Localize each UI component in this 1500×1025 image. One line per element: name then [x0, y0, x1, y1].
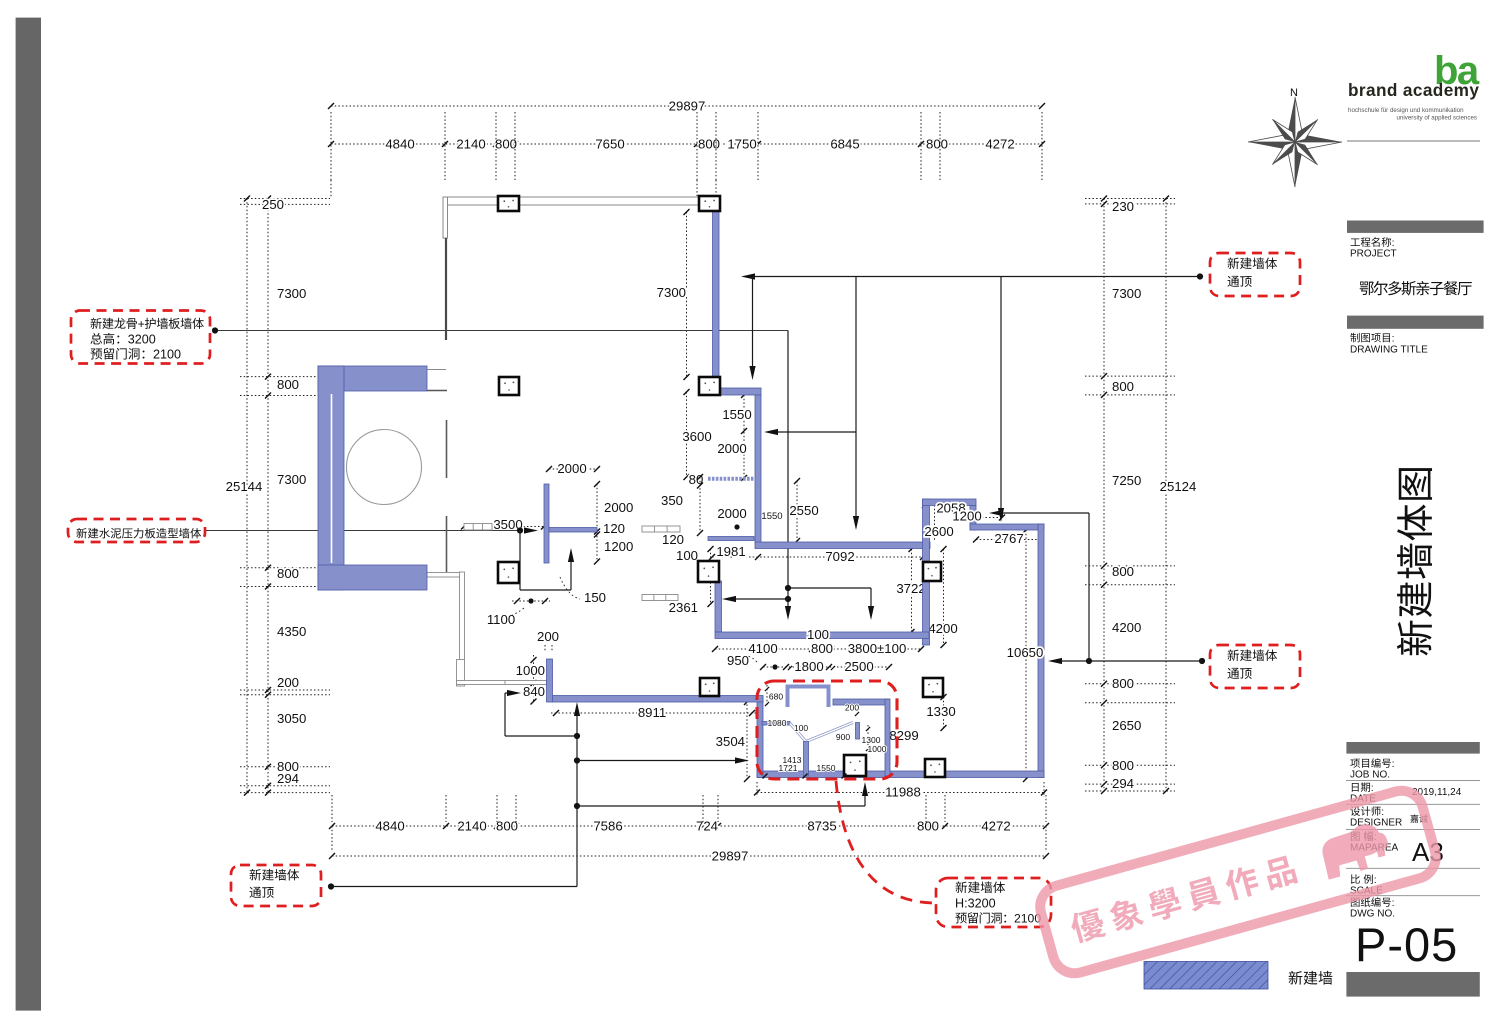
- svg-text:4272: 4272: [985, 137, 1014, 152]
- callout B4 top-right: [1210, 253, 1300, 296]
- leader from bottom-right callout B5: [1199, 658, 1205, 664]
- existing wall left segment: [443, 197, 448, 238]
- svg-text:8299: 8299: [889, 728, 918, 743]
- new wall W3 vertical: [755, 395, 761, 543]
- small room door frame: [788, 687, 829, 708]
- svg-text:7300: 7300: [277, 286, 306, 301]
- vertical drawing title: [1397, 468, 1432, 655]
- left dimension chain: [267, 199, 269, 793]
- svg-text:800: 800: [277, 566, 299, 581]
- new wall: C-shape left bar: [318, 366, 344, 590]
- bottom extension stubs: [331, 795, 333, 822]
- dim 1100: [512, 600, 550, 602]
- watermark stamp: [1035, 786, 1441, 979]
- svg-text:1000: 1000: [516, 663, 545, 678]
- svg-text::: :: [1381, 807, 1384, 818]
- svg-text:P-05: P-05: [1355, 918, 1458, 971]
- svg-text:1200: 1200: [952, 509, 981, 524]
- svg-text:university of applied sciences: university of applied sciences: [1397, 115, 1477, 122]
- project name: [1360, 282, 1374, 296]
- leader from top-right callout B4: [745, 276, 1200, 278]
- left page border bar: [16, 18, 41, 1011]
- svg-text:200: 200: [845, 703, 859, 713]
- column C4: [699, 377, 720, 395]
- small room wall mid vertical: [804, 742, 809, 777]
- dim 8911: [551, 712, 757, 714]
- new wall W12 8911 wall: [552, 696, 763, 703]
- svg-text:7300: 7300: [277, 472, 306, 487]
- svg-text:3504: 3504: [716, 734, 745, 749]
- existing wall lower-left: [427, 573, 460, 578]
- svg-text:PROJECT: PROJECT: [1350, 249, 1397, 260]
- new wall W5 vertical right-mid: [923, 499, 930, 645]
- svg-text:8735: 8735: [807, 819, 836, 834]
- dim 1330: [943, 697, 945, 728]
- svg-text::: :: [1374, 875, 1377, 886]
- new wall W2: [719, 388, 761, 395]
- svg-text:230: 230: [1112, 199, 1134, 214]
- svg-text:800: 800: [1112, 676, 1134, 691]
- C-shape inner line: [331, 394, 333, 563]
- svg-text:3200: 3200: [128, 333, 156, 347]
- new wall W15 thin 120: [708, 537, 754, 541]
- svg-text:2550: 2550: [789, 503, 818, 518]
- svg-text:800: 800: [1112, 379, 1134, 394]
- svg-text:7300: 7300: [657, 285, 686, 300]
- bottom dimension chain segments row: [332, 825, 1046, 827]
- svg-text:4840: 4840: [375, 819, 404, 834]
- svg-text:1100: 1100: [487, 612, 515, 627]
- column C2: [699, 196, 720, 211]
- svg-text:800: 800: [926, 137, 948, 152]
- svg-text:724: 724: [696, 819, 718, 834]
- svg-text:6845: 6845: [830, 137, 859, 152]
- svg-text:250: 250: [262, 197, 284, 212]
- svg-text:800: 800: [1112, 758, 1134, 773]
- svg-text:800: 800: [1112, 564, 1134, 579]
- small room wall left: [762, 722, 790, 726]
- svg-text:2600: 2600: [924, 524, 953, 539]
- svg-text:1550: 1550: [722, 407, 751, 422]
- svg-text:1721: 1721: [779, 763, 798, 773]
- svg-text:3722: 3722: [896, 581, 925, 596]
- svg-text::: :: [1371, 783, 1374, 794]
- svg-text:4200: 4200: [1112, 620, 1141, 635]
- column C10: [925, 759, 945, 777]
- svg-text:200: 200: [537, 629, 559, 644]
- small room column: [844, 755, 866, 776]
- new wall T19 horizontal: [549, 528, 597, 533]
- svg-text::: :: [1392, 898, 1395, 909]
- svg-text:1000: 1000: [868, 744, 887, 754]
- svg-text:2767: 2767: [994, 531, 1023, 546]
- column C9: [923, 678, 943, 697]
- interior dim 2550: [796, 481, 798, 541]
- new wall: C-shape bottom bar: [318, 565, 427, 590]
- svg-text:800: 800: [698, 137, 720, 152]
- red bubble around small room: [757, 681, 897, 779]
- svg-text::: :: [1392, 238, 1395, 249]
- small room wall stub: [856, 723, 860, 740]
- svg-text:7250: 7250: [1112, 473, 1141, 488]
- column C3: [499, 377, 519, 395]
- existing wall window 3500: [464, 524, 492, 531]
- svg-text:10650: 10650: [1007, 645, 1044, 660]
- new wall W14 thin 80: [708, 477, 755, 481]
- svg-text:29897: 29897: [712, 849, 749, 864]
- svg-text:3050: 3050: [277, 711, 306, 726]
- new wall W10 bottom: [757, 771, 1044, 778]
- svg-text:25124: 25124: [1160, 479, 1197, 494]
- new wall W9 tall right: [1038, 524, 1044, 778]
- title block band 1: [1347, 221, 1484, 233]
- dims 950/1800/2500: [763, 666, 890, 668]
- dim 11988: [757, 792, 1044, 794]
- column C6: [698, 561, 719, 582]
- dim 2058/1200/2767/2600: [925, 504, 973, 506]
- svg-text::: :: [1392, 334, 1395, 345]
- new wall W17 mid bottom: [715, 632, 929, 639]
- svg-text:3800±100: 3800±100: [848, 641, 907, 656]
- svg-text:1550: 1550: [817, 763, 836, 773]
- top extension stubs: [330, 112, 332, 180]
- svg-text:1800: 1800: [794, 659, 823, 674]
- interior dims 350/2000: [699, 477, 701, 533]
- dim 10650: [1025, 530, 1027, 779]
- column C8: [700, 678, 719, 696]
- svg-text:+: +: [138, 317, 145, 331]
- dim 4200 mid: [943, 549, 945, 645]
- svg-text:8911: 8911: [638, 705, 666, 720]
- svg-text:680: 680: [769, 692, 783, 702]
- existing wall vertical dark line: [445, 238, 447, 340]
- svg-text:N: N: [1290, 87, 1298, 99]
- svg-text:4350: 4350: [277, 624, 306, 639]
- callout B6 bottom-center: [936, 878, 1051, 927]
- svg-text:brand academy: brand academy: [1348, 80, 1479, 100]
- leader from callout B2: [205, 530, 520, 532]
- title block band 2: [1347, 316, 1484, 329]
- svg-text:2100: 2100: [153, 348, 181, 362]
- interior dim 7300: [686, 212, 688, 377]
- svg-text:120: 120: [662, 532, 684, 547]
- new wall W13 small vertical: [547, 659, 553, 702]
- svg-text:294: 294: [1112, 776, 1134, 791]
- svg-text:hochschule für design und komm: hochschule für design und kommunikation: [1348, 107, 1464, 114]
- new wall W11 corner vertical: [757, 696, 763, 778]
- svg-text::: :: [1392, 759, 1395, 770]
- title block band 3: [1346, 742, 1479, 754]
- svg-text:800: 800: [811, 641, 833, 656]
- new wall W16 mid vertical: [715, 581, 722, 632]
- svg-text:100: 100: [807, 627, 829, 642]
- svg-text:2361: 2361: [669, 600, 698, 615]
- dim 2361: [710, 549, 712, 604]
- bottom 29897 row: [332, 855, 1046, 857]
- small room wall right vertical: [885, 699, 890, 776]
- existing wall top: [443, 197, 712, 205]
- column C5: [498, 562, 519, 583]
- elephant: [1317, 819, 1393, 879]
- svg-text:4840: 4840: [385, 137, 414, 152]
- svg-text:1981: 1981: [716, 544, 745, 559]
- new wall T18 vertical: [544, 484, 549, 563]
- dims 1000/840: [533, 655, 535, 702]
- new wall W8 step right: [970, 524, 1044, 530]
- svg-text:120: 120: [603, 521, 625, 536]
- column C1: [498, 196, 519, 211]
- callout B1 new keel wall: [71, 311, 210, 364]
- svg-text:100: 100: [794, 723, 808, 733]
- svg-text:150: 150: [584, 590, 606, 605]
- svg-text:7300: 7300: [1112, 286, 1141, 301]
- new wall W6 step top: [923, 499, 977, 506]
- svg-text:800: 800: [277, 377, 299, 392]
- callout B2 cement board wall: [68, 519, 205, 542]
- thin connectors at C-shape: [427, 369, 446, 371]
- svg-text:7650: 7650: [595, 137, 624, 152]
- svg-text:2140: 2140: [457, 819, 486, 834]
- existing windows left of mid room: [642, 526, 680, 532]
- svg-text:H:3200: H:3200: [955, 897, 996, 911]
- small room tiny dims: [766, 685, 768, 707]
- svg-text:950: 950: [727, 653, 749, 668]
- svg-text:2000: 2000: [717, 506, 746, 521]
- new wall W1 top-right vertical: [713, 209, 720, 379]
- top dimension chain segments row: [331, 143, 1042, 145]
- circle table: [347, 430, 422, 505]
- svg-text:2000: 2000: [604, 500, 633, 515]
- svg-text:2650: 2650: [1112, 718, 1141, 733]
- new wall W4 horizontal 7092: [755, 542, 930, 549]
- svg-text:100: 100: [676, 548, 698, 563]
- svg-text:1080: 1080: [768, 718, 787, 728]
- right dimension chain: [1103, 199, 1105, 792]
- svg-text:2000: 2000: [557, 461, 586, 476]
- svg-text:1550: 1550: [761, 511, 782, 522]
- svg-text:1200: 1200: [604, 539, 633, 554]
- interior dims 1550/2000: [743, 395, 745, 478]
- compass rose: [1248, 97, 1342, 187]
- callout B3 bottom-left: [231, 865, 321, 906]
- svg-text:29897: 29897: [669, 99, 706, 114]
- T-wall dims 2000/2000/120/1200/3500: [549, 468, 597, 470]
- svg-text:350: 350: [661, 493, 683, 508]
- leader from callout B1 (long line y=330): [212, 330, 788, 332]
- svg-text:11988: 11988: [885, 785, 921, 800]
- svg-text:800: 800: [496, 819, 518, 834]
- dims 4100/800/3800: [715, 648, 922, 650]
- small room wall top right: [833, 699, 889, 705]
- svg-text:200: 200: [277, 675, 299, 690]
- dim 3504: [746, 697, 748, 780]
- svg-text:3600: 3600: [682, 429, 711, 444]
- red leader curve to B6: [836, 781, 934, 903]
- small room chevron: [790, 723, 853, 742]
- svg-text:DRAWING TITLE: DRAWING TITLE: [1350, 345, 1428, 356]
- svg-text:4200: 4200: [928, 621, 957, 636]
- svg-text:25144: 25144: [226, 479, 263, 494]
- leader from bottom-left callout B3: [328, 883, 334, 889]
- top dimension chain 29897 row: [331, 105, 1042, 107]
- svg-text:7586: 7586: [593, 819, 622, 834]
- dim 3722: [911, 549, 913, 632]
- svg-text:7092: 7092: [825, 549, 854, 564]
- svg-text:900: 900: [836, 732, 850, 742]
- svg-text:4272: 4272: [981, 819, 1010, 834]
- svg-text:800: 800: [495, 137, 517, 152]
- callout B5 right-bottom: [1210, 645, 1300, 688]
- title block band 4: [1346, 972, 1479, 997]
- new wall W7 step down: [970, 506, 976, 531]
- svg-text:1330: 1330: [926, 704, 955, 719]
- svg-text:2000: 2000: [717, 441, 746, 456]
- svg-text:294: 294: [277, 771, 299, 786]
- svg-text:JOB NO.: JOB NO.: [1350, 770, 1390, 781]
- new wall: C-shape top bar: [318, 366, 427, 391]
- svg-text:800: 800: [917, 819, 939, 834]
- svg-text:2500: 2500: [844, 659, 873, 674]
- svg-text:840: 840: [523, 684, 545, 699]
- svg-text:2140: 2140: [456, 137, 485, 152]
- column C7: [923, 562, 941, 581]
- svg-text:4100: 4100: [748, 641, 777, 656]
- interior dim 3600 chain: [686, 392, 688, 477]
- svg-text:1750: 1750: [727, 137, 756, 152]
